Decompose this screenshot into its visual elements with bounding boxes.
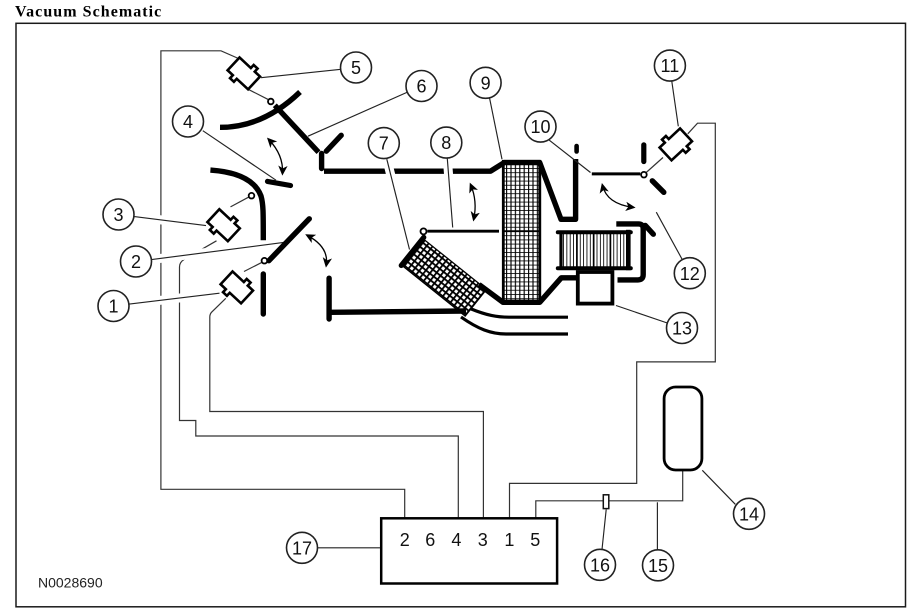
svg-text:5: 5 <box>530 530 540 550</box>
bottom connector box 17 <box>381 518 557 583</box>
svg-text:6: 6 <box>416 77 426 97</box>
leader 9 <box>490 98 503 160</box>
leader 13 <box>616 306 667 324</box>
elbow hose right of coil <box>616 224 643 280</box>
leader 1 <box>128 293 219 304</box>
node pivot at valve 11 <box>641 172 647 178</box>
vent pipe B <box>470 309 568 318</box>
vacuum reservoir 14 <box>664 387 702 470</box>
lever 3 stub <box>268 181 291 185</box>
svg-text:1: 1 <box>504 530 514 550</box>
swing arrow near hose 6 <box>269 140 283 174</box>
svg-text:8: 8 <box>441 133 451 153</box>
box 13 <box>578 272 613 304</box>
svg-text:3: 3 <box>478 530 488 550</box>
stub 12 diagonal <box>652 181 664 193</box>
swing arrow near hose 2 <box>308 236 327 266</box>
leader 4 <box>203 131 276 181</box>
wire port5: box port 5 to reservoir <box>536 471 683 518</box>
leader 14 <box>702 470 735 504</box>
lever 10 <box>592 172 641 175</box>
hose A: motor to box 13 along block9 bottom <box>479 278 579 303</box>
svg-text:3: 3 <box>113 205 123 225</box>
swing arrow near lever 10 <box>603 186 634 208</box>
leader 16 <box>602 509 606 549</box>
svg-text:15: 15 <box>648 556 668 576</box>
leader 5 <box>261 69 341 77</box>
vacuum motor 7 (diagonal hatched) <box>401 237 487 316</box>
thin link valve11-node10 <box>646 158 663 173</box>
leader 6 <box>308 92 408 136</box>
check valve / filter 16 <box>603 495 609 509</box>
leader 8 <box>447 159 452 228</box>
elbow stub near 6 <box>326 135 341 151</box>
thin link valve1-node1 <box>244 262 262 271</box>
tiny stub top <box>574 146 579 152</box>
svg-text:2: 2 <box>131 252 141 272</box>
svg-text:N0028690: N0028690 <box>38 575 103 591</box>
svg-text:17: 17 <box>292 538 312 558</box>
wire port1: box port 1 to valve11 <box>510 123 716 517</box>
svg-text:16: 16 <box>590 555 610 575</box>
coil / ribbed reservoir <box>558 230 631 270</box>
svg-text:7: 7 <box>379 134 389 154</box>
svg-text:12: 12 <box>680 264 700 284</box>
lever hose 2 (valve1 switch) <box>269 219 310 261</box>
connector port numbers <box>400 530 541 550</box>
svg-text:9: 9 <box>481 73 491 93</box>
leader 7 <box>387 159 410 249</box>
svg-text:10: 10 <box>530 117 550 137</box>
vertical hose lower segment <box>261 274 266 314</box>
leader 2 <box>151 242 286 260</box>
svg-text:5: 5 <box>351 58 361 78</box>
svg-text:13: 13 <box>672 319 692 339</box>
thin link valve5-node5 <box>248 89 269 100</box>
node pivot of rod 8 <box>421 228 427 234</box>
actuator rod 8 <box>427 230 499 233</box>
callout numbers <box>108 56 759 576</box>
callout circles 1-17 <box>98 50 765 581</box>
svg-text:2: 2 <box>400 530 410 550</box>
wire port2: valve5 to box port 2 <box>161 51 405 518</box>
T stub port <box>326 278 331 319</box>
hose 4 curve into vertical <box>210 170 263 240</box>
svg-text:4: 4 <box>451 530 461 550</box>
leader 10 <box>549 140 591 173</box>
leader 17 <box>318 547 381 549</box>
solenoid valve 5 <box>225 54 263 92</box>
white halo casings for leaders 7 and 8 <box>387 159 453 250</box>
svg-text:4: 4 <box>183 112 193 132</box>
svg-text:6: 6 <box>425 530 435 550</box>
wire port3: valve1 to box port 3 <box>210 298 484 517</box>
svg-text:Vacuum Schematic: Vacuum Schematic <box>15 4 162 21</box>
leader 12 <box>656 212 682 259</box>
svg-text:1: 1 <box>108 297 118 317</box>
air cleaner 9 hatch body <box>503 161 540 302</box>
node pivot at valve 3 <box>249 193 255 199</box>
hose 6 diagonal lever <box>275 105 319 152</box>
swing arrow near rod 8 <box>471 185 475 219</box>
leader 3 <box>133 216 206 225</box>
hose T to vacuum motor 7 <box>330 311 466 312</box>
leader 11 <box>672 81 679 126</box>
leader 15 <box>656 502 658 549</box>
solenoid valve 3 <box>205 206 243 244</box>
thin link valve3-node3 <box>231 197 250 207</box>
node pivot at valve 5 <box>268 99 274 105</box>
stub above node 10 <box>641 145 646 162</box>
solenoid valve 11 <box>657 125 695 163</box>
solenoid valve 1 <box>218 268 256 306</box>
svg-text:11: 11 <box>661 56 680 76</box>
node pivot at valve 1 <box>262 258 268 264</box>
elbow corner stub <box>645 225 653 234</box>
svg-text:14: 14 <box>739 504 759 524</box>
white halo casings for leaders 1-3 <box>128 216 285 304</box>
vent pipe C <box>461 317 568 334</box>
wire port4: valve3 to box port 4 <box>180 241 459 518</box>
hose 5 curve <box>220 92 300 127</box>
